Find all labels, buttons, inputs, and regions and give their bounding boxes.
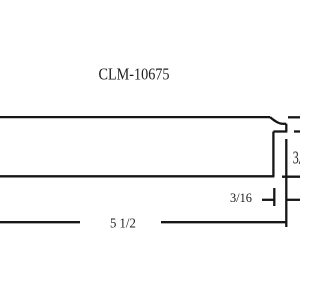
profile bottom edge bbox=[0, 175, 274, 177]
3/16 extension bar bbox=[273, 188, 275, 206]
top right dimension segment bbox=[288, 116, 300, 118]
right vertical extension line bbox=[285, 139, 287, 227]
svg-text:5 1/2: 5 1/2 bbox=[110, 216, 136, 231]
step level dimension segment bbox=[294, 130, 300, 132]
bottom right extension segment bbox=[282, 176, 300, 178]
lip outer edge bbox=[285, 124, 287, 132]
overall dimension line right segment bbox=[161, 221, 286, 223]
svg-text:CLM-10675: CLM-10675 bbox=[99, 65, 170, 84]
svg-text:/: / bbox=[299, 148, 300, 168]
profile ogee curve bbox=[270, 117, 284, 124]
profile top edge bbox=[0, 116, 270, 118]
svg-text:3/16: 3/16 bbox=[230, 191, 252, 205]
lip top flat bbox=[284, 123, 286, 125]
body right edge bbox=[272, 132, 274, 177]
3/16 dimension line right bbox=[286, 199, 300, 201]
3/16 dimension line left bbox=[262, 199, 274, 201]
rabbet step bbox=[273, 130, 287, 132]
overall dimension line left segment bbox=[0, 221, 80, 223]
